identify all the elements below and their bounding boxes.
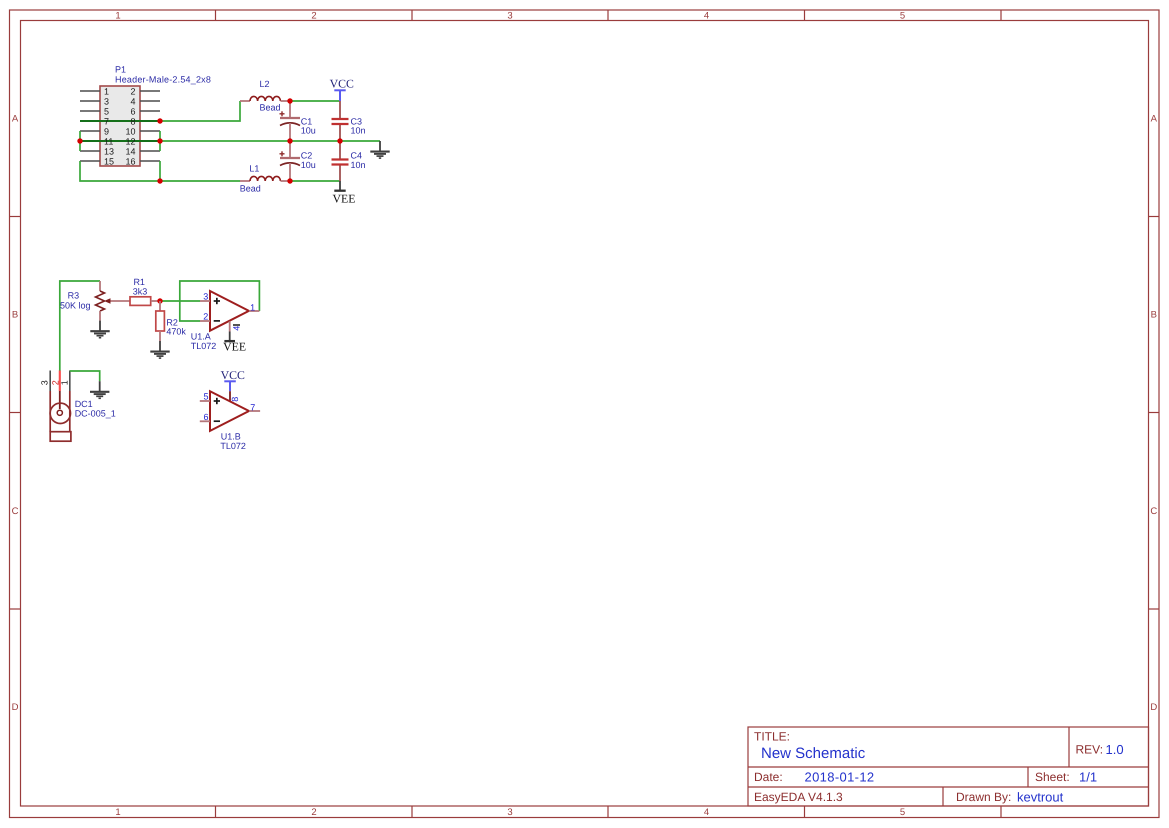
svg-text:1: 1 <box>115 11 120 22</box>
svg-text:3: 3 <box>40 380 50 385</box>
svg-text:EasyEDA V4.1.3: EasyEDA V4.1.3 <box>754 790 843 804</box>
svg-text:R3: R3 <box>68 290 80 300</box>
junction pin11 left <box>77 138 82 143</box>
svg-text:Sheet:: Sheet: <box>1035 770 1070 784</box>
op-amp U1.A <box>191 291 260 351</box>
svg-text:REV:: REV: <box>1076 743 1104 757</box>
svg-text:A: A <box>12 114 19 125</box>
inductor L1 <box>240 164 290 194</box>
svg-text:5: 5 <box>104 106 109 116</box>
wire feedback opamp A <box>180 281 260 321</box>
svg-text:3: 3 <box>104 96 109 106</box>
capacitor C3 <box>332 101 366 141</box>
svg-text:Bead: Bead <box>259 103 280 113</box>
junction L2 out <box>287 98 292 103</box>
junction node R1 out <box>157 298 162 303</box>
wire R1 to opamp pin3 <box>160 300 200 302</box>
svg-text:Date:: Date: <box>754 770 783 784</box>
svg-text:13: 13 <box>104 146 114 156</box>
svg-text:2: 2 <box>130 86 135 96</box>
ground under R2 <box>150 341 169 358</box>
wire right bracket pins 10-14 <box>159 131 161 151</box>
wire bottom bus to L1 <box>160 180 240 182</box>
svg-text:3: 3 <box>203 292 208 302</box>
svg-text:1.0: 1.0 <box>1106 742 1124 757</box>
wire pin7-pin8 row <box>80 120 160 122</box>
svg-text:VEE: VEE <box>223 339 246 353</box>
wire pin15 to bottom <box>80 161 160 181</box>
svg-text:TL072: TL072 <box>220 441 246 451</box>
capacitor C1 <box>280 101 316 141</box>
svg-text:14: 14 <box>125 146 135 156</box>
svg-text:U1.B: U1.B <box>221 431 241 441</box>
svg-text:10n: 10n <box>351 160 366 170</box>
wire L2 to VCC <box>290 100 340 102</box>
svg-text:6: 6 <box>130 106 135 116</box>
svg-text:4: 4 <box>704 11 709 22</box>
svg-text:A: A <box>1151 114 1158 125</box>
svg-text:5: 5 <box>900 11 905 22</box>
svg-text:Bead: Bead <box>240 183 261 193</box>
header P1 body <box>100 86 140 166</box>
inductor L2 <box>240 79 290 113</box>
power jack DC1 <box>40 371 116 442</box>
power VEE opamp A <box>223 332 246 354</box>
svg-text:9: 9 <box>104 126 109 136</box>
wire pin16 down <box>159 161 161 181</box>
junction pin16 bottom <box>157 178 162 183</box>
svg-text:2: 2 <box>203 312 208 322</box>
svg-text:4: 4 <box>130 96 135 106</box>
wire R3 top loop <box>60 281 100 371</box>
wire left bracket pins 9-13 <box>79 131 81 151</box>
svg-text:New Schematic: New Schematic <box>761 745 866 762</box>
svg-text:1: 1 <box>104 86 109 96</box>
junction pin8 <box>157 118 162 123</box>
capacitor C2 <box>280 141 316 181</box>
svg-text:2: 2 <box>311 11 316 22</box>
junction C1 bus <box>287 138 292 143</box>
svg-text:11: 11 <box>104 136 113 146</box>
svg-text:3: 3 <box>507 11 512 22</box>
junction C3 bus <box>337 138 342 143</box>
junction pin12 right <box>157 138 162 143</box>
resistor R2 <box>156 301 187 341</box>
wire mid bus to ground <box>160 140 380 142</box>
svg-text:1: 1 <box>250 302 255 312</box>
svg-text:470k: 470k <box>166 327 186 337</box>
svg-text:TITLE:: TITLE: <box>754 730 790 744</box>
svg-text:DC-005_1: DC-005_1 <box>75 409 116 419</box>
svg-text:3: 3 <box>507 807 512 818</box>
svg-text:D: D <box>12 702 19 713</box>
capacitor C4 <box>332 141 366 181</box>
svg-text:Drawn By:: Drawn By: <box>956 790 1011 804</box>
power VCC opamp B <box>221 368 245 391</box>
svg-text:B: B <box>1151 310 1157 321</box>
svg-text:7: 7 <box>104 116 109 126</box>
svg-text:10u: 10u <box>301 126 316 136</box>
junction L1 out <box>287 178 292 183</box>
ground near DC1 <box>90 381 109 398</box>
svg-text:C: C <box>1150 506 1157 517</box>
header P1 pin stubs right <box>140 91 160 161</box>
svg-text:16: 16 <box>125 156 135 166</box>
svg-text:VCC: VCC <box>221 368 245 382</box>
svg-text:2: 2 <box>311 807 316 818</box>
svg-text:10n: 10n <box>351 126 366 136</box>
wire DC1 pin1 to ground <box>70 371 100 381</box>
svg-text:C: C <box>12 506 19 517</box>
svg-text:4: 4 <box>232 326 242 331</box>
svg-text:1: 1 <box>115 807 120 818</box>
svg-text:VEE: VEE <box>333 191 356 205</box>
wire pin11-pin12 row <box>80 140 160 142</box>
svg-text:D: D <box>1150 702 1157 713</box>
svg-text:10: 10 <box>125 126 135 136</box>
svg-text:15: 15 <box>104 156 114 166</box>
ground under R3 <box>90 321 109 338</box>
svg-text:VCC: VCC <box>330 77 354 91</box>
power VCC top <box>330 77 354 102</box>
svg-text:B: B <box>12 310 18 321</box>
svg-text:U1.A: U1.A <box>191 331 211 341</box>
svg-text:12: 12 <box>125 136 135 146</box>
svg-text:DC1: DC1 <box>75 399 93 409</box>
svg-text:L2: L2 <box>259 79 269 89</box>
potentiometer R3 <box>60 281 130 321</box>
svg-text:7: 7 <box>250 402 255 412</box>
header P1 pin stubs left <box>80 91 100 161</box>
svg-text:50K log: 50K log <box>60 301 91 311</box>
svg-text:5: 5 <box>203 392 208 402</box>
svg-text:P1: P1 <box>115 65 126 75</box>
wire L1 to VEE <box>290 180 340 182</box>
svg-text:6: 6 <box>203 412 208 422</box>
resistor R1 <box>130 277 160 305</box>
svg-text:Header-Male-2.54_2x8: Header-Male-2.54_2x8 <box>115 75 211 85</box>
svg-text:TL072: TL072 <box>191 341 217 351</box>
svg-text:kevtrout: kevtrout <box>1017 790 1064 805</box>
wire pin8 to L2 <box>160 101 240 121</box>
svg-text:4: 4 <box>704 807 709 818</box>
svg-text:3k3: 3k3 <box>133 286 148 296</box>
svg-text:5: 5 <box>900 807 905 818</box>
power VEE top <box>333 181 356 205</box>
svg-text:8: 8 <box>230 397 240 402</box>
ground mid bus <box>370 141 389 158</box>
header P1 pin numbers <box>104 86 136 166</box>
header P1 labels <box>115 65 211 85</box>
svg-text:2018-01-12: 2018-01-12 <box>805 770 875 785</box>
svg-text:10u: 10u <box>301 160 316 170</box>
svg-text:1: 1 <box>60 380 70 385</box>
svg-text:8: 8 <box>130 116 135 126</box>
svg-text:1/1: 1/1 <box>1079 770 1097 785</box>
svg-text:L1: L1 <box>249 164 259 174</box>
op-amp U1.B <box>200 391 260 451</box>
